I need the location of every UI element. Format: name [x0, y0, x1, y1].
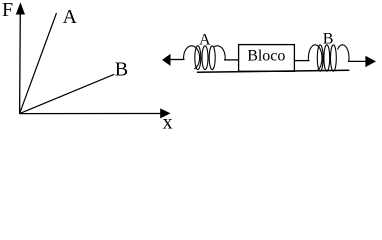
spring B (coil) — [308, 45, 349, 71]
y-axis arrowhead — [16, 2, 25, 14]
right arrowhead (points right) — [365, 56, 376, 67]
spring A (coil) — [184, 46, 226, 70]
svg-text:Bloco: Bloco — [247, 48, 285, 65]
svg-text:F: F — [2, 0, 13, 21]
svg-text:B: B — [115, 58, 128, 80]
y-axis F (shaft) — [19, 11, 22, 114]
svg-text:A: A — [199, 32, 211, 49]
wire: left arrow to spring A — [170, 59, 185, 61]
svg-text:x: x — [163, 111, 173, 130]
ground/base line under assembly — [197, 70, 349, 72]
x-axis arrowhead — [160, 108, 170, 118]
line A (steep) — [20, 13, 57, 114]
left arrowhead (points left) — [162, 54, 170, 66]
wire: spring B to right arrow — [348, 60, 367, 62]
wire: spring A to block — [224, 59, 239, 61]
svg-text:B: B — [323, 30, 334, 47]
x-axis (shaft) — [20, 113, 162, 115]
svg-text:A: A — [63, 6, 78, 28]
block rectangle — [239, 45, 295, 72]
line B (shallow) — [20, 74, 115, 113]
wire: block to spring B — [294, 60, 309, 62]
physics diagram: F-x graph and block between two springs — [0, 0, 382, 130]
